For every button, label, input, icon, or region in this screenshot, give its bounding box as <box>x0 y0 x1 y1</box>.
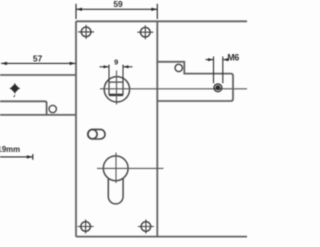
svg-text:9: 9 <box>114 58 118 67</box>
svg-text:19mm: 19mm <box>0 145 20 154</box>
svg-text:59: 59 <box>113 0 123 9</box>
svg-text:M6: M6 <box>227 52 239 62</box>
svg-text:57: 57 <box>33 53 43 63</box>
